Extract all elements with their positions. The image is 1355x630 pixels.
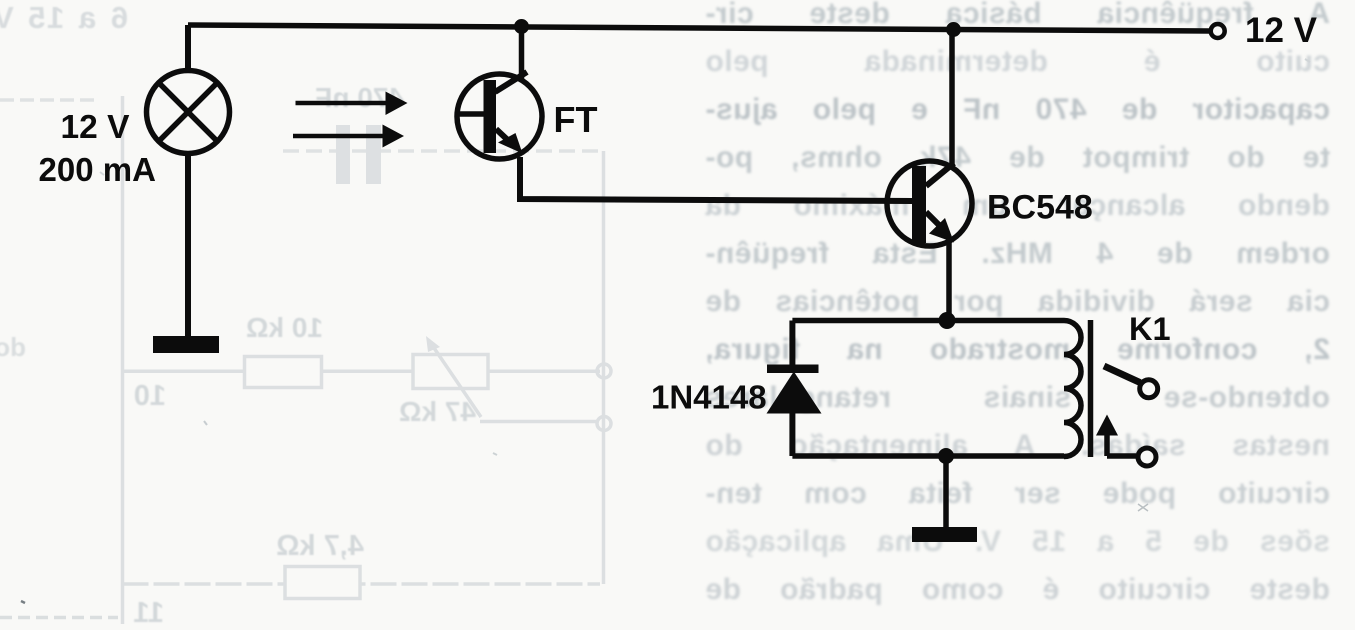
node: back-page bleed-through text column (mirrored) (705, 0, 1330, 630)
node: faint terminal circle lower (597, 417, 611, 431)
node: faint terminal circle upper (597, 364, 611, 378)
diode D1 1N4148: cathode bar (767, 365, 819, 374)
wire: ground lead (943, 456, 949, 527)
node: mirrored bleed label 47 kO (378, 396, 476, 428)
resistor: faint bleed resistor box 10 k (245, 357, 322, 388)
wire: faint trimpot wiper diagonal (432, 345, 481, 417)
wire: +12V top rail (188, 25, 1210, 31)
wire: lamp top lead (185, 25, 191, 73)
junction: bottom wire / ground dot (938, 448, 954, 464)
resistor: faint bleed resistor box 4,7 k (285, 567, 360, 599)
wire: faint mid dashes (283, 149, 604, 153)
node: light arrow 1 (296, 101, 388, 106)
wire: faint bottom-left dashes (0, 616, 118, 620)
resistor: faint bleed trimpot box 47 k (413, 355, 488, 389)
node: light arrow 2 (293, 134, 384, 139)
junction: rail dot above BC548 (946, 22, 961, 37)
svg-text:BC548: BC548 (987, 189, 1093, 227)
wire: faint wire row 2 bottom (123, 582, 601, 586)
node: bleed-through reverse-side figure (faint gray) (0, 96, 611, 624)
transistor Q1 BC548 (887, 161, 972, 246)
svg-text:1N4148: 1N4148 (651, 379, 767, 416)
wire: faint figure left border (121, 96, 125, 624)
wire: diode branch upper lead (789, 321, 795, 366)
wire: FT collector wire from rail (519, 27, 525, 80)
node: mirrored bleed label 10 kO (231, 312, 323, 344)
relay K1: armature arrow (1104, 433, 1110, 456)
wire: common contact lead (1107, 453, 1136, 459)
wire: faint right border (602, 151, 606, 584)
node: mirrored bleed label 11 (130, 597, 164, 630)
wire: diode branch lower lead (789, 410, 795, 456)
ground: relay ground bar (912, 527, 977, 542)
svg-text:FT: FT (554, 99, 598, 140)
ground: lamp ground bar (153, 336, 219, 353)
wire: BC548 emitter wire down (946, 242, 952, 321)
node: mirrored bleed label 4,7 kO (252, 530, 364, 563)
node: left-edge bleed fragment (0, 332, 26, 363)
diode D1 1N4148: anode triangle (767, 372, 822, 414)
wire: lamp bottom lead (185, 154, 191, 338)
svg-text:12 V: 12 V (61, 109, 131, 146)
relay K1: NO contact circle (1140, 380, 1158, 398)
node: +12V terminal circle (1211, 24, 1225, 38)
relay K1: common contact circle (1138, 448, 1156, 466)
wire: BC548 collector wire to rail (949, 29, 955, 166)
junction: emitter/top-wire dot (939, 312, 956, 329)
node: mirrored bleed label 6 a 15 V (top left, cut by edge) (0, 0, 128, 36)
transistor FT (phototransistor) (457, 74, 542, 159)
wire: faint top dashes (0, 98, 95, 102)
capacitor: faint bleed capacitor plates (470 nF) (336, 125, 350, 184)
junction: rail dot above FT (514, 19, 529, 34)
wire: relay/diode top wire (792, 318, 1064, 324)
svg-text:12 V: 12 V (1245, 11, 1318, 50)
node: mirrored bleed label 470 nF (300, 82, 404, 114)
relay K1: switch blade (1104, 366, 1140, 383)
relay K1: coil (1064, 321, 1081, 457)
svg-text:200 mA: 200 mA (39, 151, 156, 188)
wire: faint trimpot output lead (480, 420, 597, 424)
wire: faint wire row 1 (123, 370, 601, 374)
relay K1: core line (1088, 320, 1094, 457)
lamp LP1 12V 200mA: circle with X (147, 71, 230, 154)
svg-text:K1: K1 (1129, 311, 1171, 347)
node: mirrored bleed label 10 (128, 380, 166, 413)
main circuit (black ink) (147, 19, 1225, 542)
wire: relay/diode bottom wire (792, 453, 1064, 459)
wire: FT emitter wire down and right to BC548 base (520, 157, 912, 201)
